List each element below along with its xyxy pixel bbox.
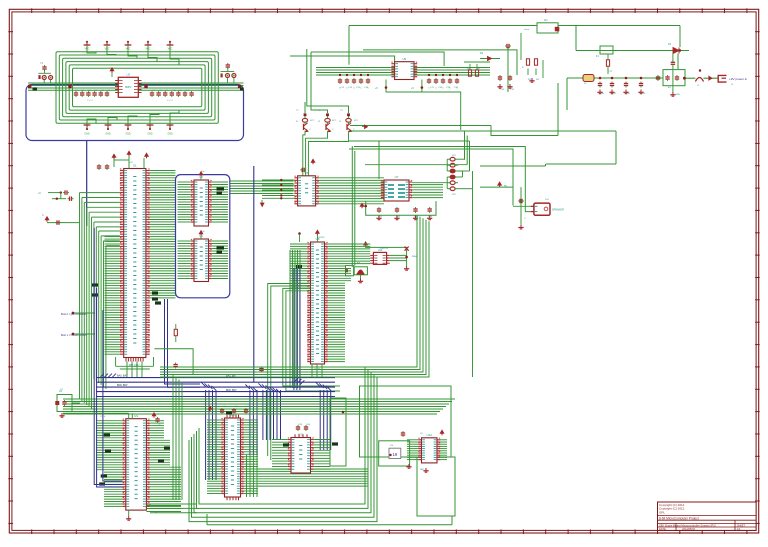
svg-text:SHEET:: SHEET: <box>737 524 746 527</box>
svg-text:1/1: 1/1 <box>737 527 741 531</box>
svg-text:close: close <box>524 29 530 31</box>
svg-text:U4: U4 <box>199 234 203 238</box>
svg-text:2012/05/02: 2012/05/02 <box>682 527 696 531</box>
svg-text:BD0..BD7: BD0..BD7 <box>117 384 128 387</box>
svg-text:GPL: GPL <box>659 510 665 514</box>
svg-text:C C C: C C C <box>167 100 173 102</box>
svg-text:GND: GND <box>84 134 89 136</box>
svg-text:PTC: PTC <box>608 71 613 73</box>
svg-text:DATE:: DATE: <box>659 527 667 531</box>
svg-text:U5: U5 <box>402 57 406 61</box>
svg-text:GND: GND <box>125 134 130 136</box>
svg-text:DS: DS <box>390 445 394 447</box>
svg-text:5V: 5V <box>504 185 507 188</box>
svg-text:U1: U1 <box>133 164 137 168</box>
svg-text:U2: U2 <box>127 73 131 77</box>
svg-text:BA0..BA7: BA0..BA7 <box>117 375 128 378</box>
svg-text:8-bit MicroComputer Project: 8-bit MicroComputer Project <box>659 516 699 520</box>
svg-text:628128: 628128 <box>317 237 325 239</box>
svg-text:8MHz: 8MHz <box>125 86 132 89</box>
svg-text:U3: U3 <box>199 175 203 179</box>
svg-text:GND: GND <box>167 134 172 136</box>
svg-text:U12: U12 <box>426 433 432 437</box>
svg-text:GND: GND <box>147 134 152 136</box>
svg-text:19: 19 <box>393 452 398 457</box>
svg-text:74LS: 74LS <box>100 416 106 418</box>
svg-text:SPEAKER: SPEAKER <box>552 209 564 212</box>
svg-text:DS1233: DS1233 <box>380 248 389 250</box>
svg-text:GND: GND <box>675 94 680 96</box>
svg-text:+5V: +5V <box>129 162 133 164</box>
svg-text:R1: R1 <box>544 18 548 22</box>
svg-text:Z80 Single Board Microcontroll: Z80 Single Board Microcontroller System … <box>659 523 716 527</box>
svg-text:C C C: C C C <box>87 100 93 102</box>
svg-text:+9V power in: +9V power in <box>729 77 747 81</box>
svg-text:U7: U7 <box>395 175 399 179</box>
svg-text:U6: U6 <box>305 171 309 175</box>
svg-text:U9: U9 <box>134 414 138 418</box>
svg-text:GND: GND <box>105 134 110 136</box>
svg-text:BD0..BD7: BD0..BD7 <box>226 389 237 392</box>
